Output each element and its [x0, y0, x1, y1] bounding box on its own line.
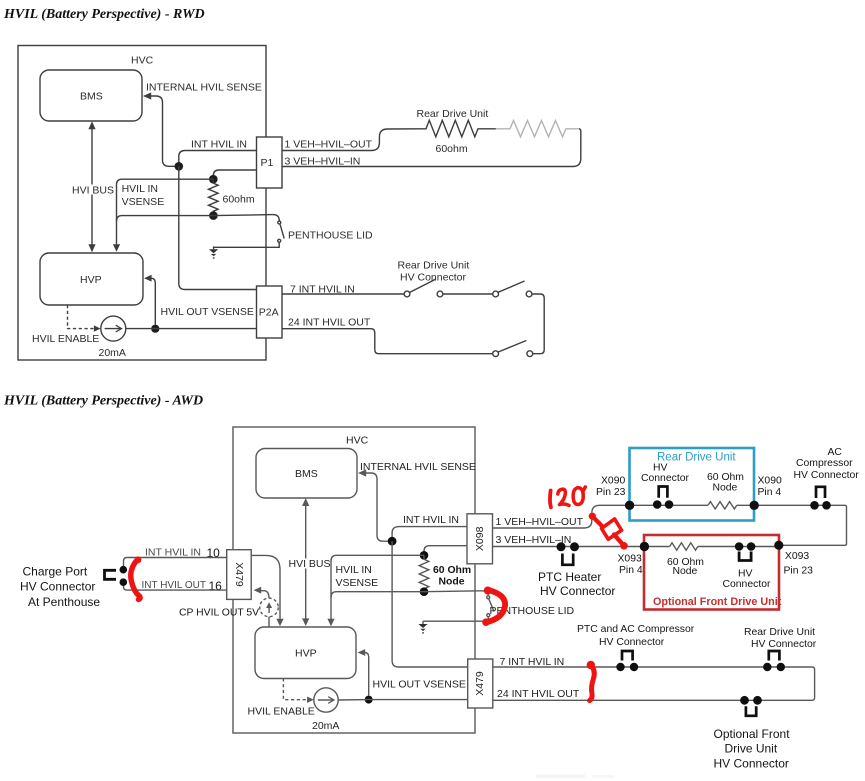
- node 60ohm bottom: [209, 211, 218, 220]
- svg-text:HVI BUS: HVI BUS: [72, 185, 114, 197]
- svg-text:HVIL ENABLE: HVIL ENABLE: [248, 706, 315, 718]
- node HVIL OUT (AWD): [365, 696, 373, 704]
- svg-text:HV: HV: [653, 463, 668, 474]
- svg-text:Optional Front Drive Unit: Optional Front Drive Unit: [653, 596, 782, 608]
- pin 1 VEH-HVIL-OUT (AWD): [496, 516, 584, 528]
- svg-text:INTERNAL HVIL SENSE: INTERNAL HVIL SENSE: [146, 82, 262, 94]
- box Optional Front Drive Unit (red): [644, 535, 782, 610]
- wire to penthouse switch: [213, 215, 279, 221]
- HVC box (AWD): [233, 427, 475, 733]
- svg-text:Rear Drive Unit: Rear Drive Unit: [417, 108, 489, 120]
- svg-text:60ohm: 60ohm: [223, 194, 255, 206]
- svg-text:60ohm: 60ohm: [436, 143, 468, 155]
- svg-text:24 INT HVIL OUT: 24 INT HVIL OUT: [497, 688, 580, 700]
- svg-text:HVP: HVP: [295, 648, 317, 660]
- connector X479 charge port: [227, 550, 252, 600]
- svg-text:Compressor: Compressor: [796, 458, 853, 469]
- wire source to X479 (AWD): [338, 699, 468, 701]
- node 60ohm top (AWD): [420, 551, 429, 560]
- svg-text:HV Connector: HV Connector: [540, 584, 615, 598]
- wire INT HVIL IN: [179, 139, 257, 167]
- node 60ohm bottom (AWD): [420, 587, 429, 596]
- wire switch to ground: [214, 243, 280, 248]
- wire pin1 to rear resistor: [282, 129, 422, 151]
- svg-text:X093: X093: [785, 551, 809, 562]
- wire HVIL ENABLE (dashed): [32, 305, 101, 345]
- title RWD: [3, 7, 205, 22]
- svg-text:X090: X090: [758, 476, 782, 487]
- svg-text:20mA: 20mA: [99, 347, 126, 359]
- HVI BUS wire: [70, 121, 114, 252]
- svg-text:HVI BUS: HVI BUS: [289, 558, 331, 570]
- wire row A right: [737, 505, 847, 545]
- connector X098: [467, 514, 493, 564]
- svg-text:PENTHOUSE LID: PENTHOUSE LID: [288, 230, 373, 242]
- pin 7 INT HVIL IN: [290, 284, 355, 296]
- wire loop right: [532, 294, 544, 354]
- annotation red arc penthouse: [482, 587, 505, 627]
- BMS U1: [40, 70, 142, 121]
- svg-text:X098: X098: [474, 526, 486, 551]
- svg-text:HVC: HVC: [131, 55, 154, 67]
- wire HVIL IN VSENSE top (AWD): [327, 555, 424, 626]
- svg-text:1 VEH–HVIL–OUT: 1 VEH–HVIL–OUT: [496, 516, 584, 528]
- svg-text:Rear Drive Unit: Rear Drive Unit: [398, 260, 470, 272]
- wire pin3 row B left: [493, 546, 670, 548]
- svg-text:Connector: Connector: [641, 473, 689, 484]
- svg-text:INTERNAL HVIL SENSE: INTERNAL HVIL SENSE: [360, 461, 476, 473]
- box Rear Drive Unit (blue): [630, 448, 755, 521]
- svg-text:Pin 23: Pin 23: [596, 487, 626, 498]
- wire INT HVIL IN (AWD): [392, 514, 467, 541]
- svg-text:Drive Unit: Drive Unit: [725, 742, 778, 756]
- resistor 60 Ohm Node (blue box): [707, 472, 744, 509]
- pin 24 INT HVIL OUT (AWD): [497, 688, 580, 700]
- svg-text:HVIL OUT VSENSE: HVIL OUT VSENSE: [373, 679, 466, 691]
- svg-text:BMS: BMS: [295, 468, 318, 480]
- svg-text:VSENSE: VSENSE: [336, 577, 379, 589]
- pin 10 INT HVIL IN: [124, 546, 227, 566]
- wire switches to pin24: [282, 329, 493, 354]
- svg-text:HVP: HVP: [80, 274, 102, 286]
- connector HV (blue box): [641, 463, 689, 509]
- HVP U2: [40, 253, 143, 305]
- annotation red 120: [550, 487, 585, 507]
- svg-text:Node: Node: [673, 566, 698, 577]
- svg-text:3 VEH–HVIL–IN: 3 VEH–HVIL–IN: [285, 155, 361, 167]
- node 60ohm top: [209, 175, 218, 184]
- faint artifact bottom: [536, 775, 614, 779]
- svg-text:60 Ohm: 60 Ohm: [433, 565, 471, 576]
- wire CP HVIL OUT 5V: [179, 587, 269, 619]
- source CP 5V (dashed circle): [260, 598, 279, 617]
- node B junction: [388, 537, 397, 546]
- svg-text:Optional Front: Optional Front: [714, 727, 791, 741]
- svg-text:BMS: BMS: [80, 91, 103, 103]
- wire HVIL OUT VSENSE (AWD): [358, 649, 466, 695]
- pin 3 VEH-HVIL-IN (AWD): [496, 534, 572, 546]
- annotation red arc charge port: [131, 556, 142, 599]
- pin 1 VEH-HVIL-OUT: [285, 139, 373, 151]
- wire HVIL IN VSENSE bottom: [117, 216, 214, 222]
- svg-text:HV Connector: HV Connector: [794, 470, 860, 481]
- svg-text:HVIL IN: HVIL IN: [122, 183, 158, 195]
- svg-text:60 Ohm: 60 Ohm: [707, 472, 744, 483]
- connector X479 (bottom): [468, 659, 493, 708]
- svg-text:20mA: 20mA: [312, 720, 339, 732]
- svg-text:Pin 4: Pin 4: [758, 487, 782, 498]
- pin 3 VEH-HVIL-IN: [285, 155, 361, 167]
- node charge port top: [120, 566, 128, 574]
- connector Optional Front Drive Unit: [714, 696, 791, 771]
- switch S2: [493, 281, 532, 297]
- wire pin1 to rear drive row: [493, 505, 627, 528]
- svg-text:Pin 4: Pin 4: [619, 565, 643, 576]
- connector PTC Heater: [538, 542, 615, 598]
- annotation red squiggle pins: [587, 661, 595, 701]
- HVP U4: [255, 627, 356, 679]
- node X090 Pin 4: [750, 476, 782, 510]
- svg-text:Charge Port: Charge Port: [23, 565, 88, 579]
- wire red box right: [698, 546, 779, 548]
- svg-text:HV Connector: HV Connector: [599, 637, 665, 648]
- wire X479 pin10 to HVP: [251, 555, 283, 626]
- wire source to P2A pin24: [126, 328, 257, 330]
- svg-text:X093: X093: [618, 554, 642, 565]
- resistor Rear Drive Unit 60ohm: [417, 108, 496, 155]
- wire X098 left to 60 Ohm node: [424, 546, 467, 556]
- svg-text:HV Connector: HV Connector: [400, 272, 466, 284]
- node charge port bottom: [120, 578, 128, 586]
- HVI BUS wire (AWD): [287, 498, 331, 626]
- svg-text:X479: X479: [233, 562, 245, 587]
- wire pin7 to switches: [282, 293, 404, 295]
- charge port mating bracket: [20, 565, 116, 610]
- svg-text:Node: Node: [439, 576, 465, 587]
- svg-text:INT HVIL IN: INT HVIL IN: [403, 514, 459, 526]
- wire pin7 loop right: [493, 667, 815, 700]
- svg-text:1 VEH–HVIL–OUT: 1 VEH–HVIL–OUT: [285, 139, 373, 151]
- connector PTC and AC Compressor: [577, 624, 695, 671]
- svg-text:HVIL (Battery Perspective) - R: HVIL (Battery Perspective) - RWD: [3, 7, 205, 22]
- svg-text:7 INT HVIL IN: 7 INT HVIL IN: [500, 656, 565, 668]
- pin 7 INT HVIL IN (AWD): [500, 656, 565, 668]
- resistor ghost (gray): [496, 121, 579, 137]
- svg-text:HV Connector: HV Connector: [20, 580, 95, 594]
- connector P1: [257, 137, 283, 188]
- connector AC Compressor: [794, 447, 860, 510]
- resistor 60ohm vertical: [209, 179, 255, 215]
- HVC box (RWD): [18, 46, 266, 361]
- wire HVIL IN VSENSE top: [113, 179, 213, 252]
- wire INTERNAL HVIL SENSE (AWD): [358, 461, 476, 541]
- svg-text:INT HVIL OUT: INT HVIL OUT: [142, 580, 206, 591]
- switch S1: [398, 260, 470, 297]
- svg-text:VSENSE: VSENSE: [122, 196, 165, 208]
- current source 20mA (AWD): [312, 688, 339, 732]
- connector Rear Drive Unit (AWD): [744, 627, 817, 671]
- pin 24 INT HVIL OUT: [288, 317, 371, 329]
- switch S3: [493, 341, 533, 357]
- wire node B to X479 pin7: [392, 541, 467, 667]
- pin 16 INT HVIL OUT: [124, 579, 227, 593]
- wire 5V source to HVP: [268, 617, 270, 627]
- connector P2A: [257, 286, 283, 338]
- svg-text:PTC Heater: PTC Heater: [538, 570, 601, 584]
- svg-text:HVIL IN: HVIL IN: [336, 564, 372, 576]
- svg-text:HV: HV: [738, 569, 753, 580]
- svg-text:HVIL OUT VSENSE: HVIL OUT VSENSE: [161, 306, 254, 318]
- resistor 60 Ohm Node (AWD left): [419, 555, 471, 591]
- svg-text:X479: X479: [474, 671, 486, 696]
- svg-text:P2A: P2A: [259, 307, 279, 319]
- svg-text:HVC: HVC: [346, 435, 369, 447]
- wire switch to ground (AWD): [423, 617, 488, 621]
- svg-text:X090: X090: [601, 476, 625, 487]
- wire to penthouse switch (AWD): [424, 591, 488, 596]
- svg-text:Rear Drive Unit: Rear Drive Unit: [744, 627, 815, 638]
- switch PENTHOUSE LID (AWD): [487, 596, 575, 617]
- annotation red break mark: [589, 513, 628, 550]
- svg-text:CP HVIL OUT 5V: CP HVIL OUT 5V: [179, 608, 259, 619]
- svg-text:Pin 23: Pin 23: [784, 566, 814, 577]
- node HVIL OUT: [151, 325, 159, 333]
- wire HVIL ENABLE (AWD dashed): [248, 678, 315, 717]
- svg-text:Rear Drive Unit: Rear Drive Unit: [657, 452, 736, 464]
- switch PENTHOUSE LID: [278, 221, 373, 242]
- wire node A to P2A pin7: [179, 166, 257, 289]
- svg-text:Node: Node: [713, 483, 738, 494]
- title AWD: [3, 394, 203, 409]
- svg-text:At Penthouse: At Penthouse: [28, 595, 100, 609]
- wire P1 left to 60ohm node: [213, 170, 256, 179]
- node X090 Pin 23: [596, 476, 634, 510]
- svg-text:Connector: Connector: [723, 579, 771, 590]
- connector HV (red box): [723, 542, 771, 590]
- node A junction: [175, 162, 184, 171]
- svg-text:AC: AC: [828, 447, 843, 458]
- wire INTERNAL HVIL SENSE: [143, 82, 262, 167]
- wire S1 to S2: [443, 293, 493, 295]
- wire HVIL OUT VSENSE: [144, 275, 254, 325]
- BMS U3: [256, 449, 357, 499]
- wire return loop to pin 3: [282, 129, 581, 167]
- svg-text:PTC and AC Compressor: PTC and AC Compressor: [577, 624, 695, 635]
- svg-text:P1: P1: [261, 157, 274, 169]
- node X093 Pin 23: [774, 541, 813, 577]
- svg-text:HVIL (Battery Perspective) - A: HVIL (Battery Perspective) - AWD: [3, 394, 203, 409]
- node X093 Pin 4: [618, 542, 650, 576]
- svg-text:24 INT HVIL OUT: 24 INT HVIL OUT: [288, 317, 371, 329]
- wire row A through blue box: [629, 504, 708, 506]
- svg-text:HVIL ENABLE: HVIL ENABLE: [32, 333, 99, 345]
- svg-text:HV Connector: HV Connector: [714, 757, 789, 771]
- resistor 60 Ohm Node (red box): [667, 543, 704, 577]
- wire HVIL IN VSENSE bottom (AWD): [331, 592, 424, 598]
- svg-text:INT HVIL IN: INT HVIL IN: [191, 139, 247, 151]
- ground (AWD): [418, 621, 427, 633]
- current source 20mA: [99, 316, 126, 359]
- svg-text:HV Connector: HV Connector: [751, 639, 817, 650]
- ground: [209, 246, 218, 258]
